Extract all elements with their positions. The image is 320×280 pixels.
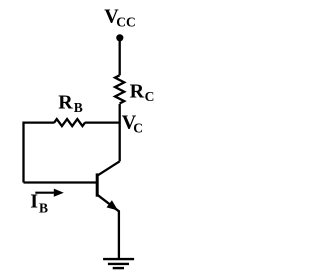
- svg-text:I: I: [30, 191, 38, 213]
- svg-text:CC: CC: [116, 14, 136, 29]
- svg-text:B: B: [74, 100, 83, 115]
- svg-text:C: C: [133, 120, 143, 135]
- svg-text:R: R: [58, 92, 73, 114]
- svg-text:R: R: [130, 81, 145, 103]
- svg-text:B: B: [39, 200, 48, 215]
- svg-text:C: C: [145, 89, 155, 104]
